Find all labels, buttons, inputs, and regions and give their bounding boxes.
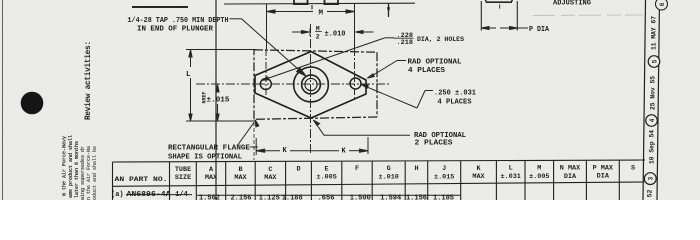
phantom rectangle (optional rectangular flange) [254,50,377,120]
rev circle 3 [644,173,656,185]
hexagonal flange outline [255,52,366,119]
leader: rad optional 2 places [313,120,410,135]
right hole extension line [354,4,356,49]
rev circle 6 [656,0,668,10]
scan edge line at far left [2,0,4,200]
centerline tick of top view [311,5,313,10]
left bolt hole [260,79,271,90]
right hole centerline [354,49,356,101]
punch hole [21,92,44,115]
table headers [115,164,636,184]
left hole extension line [266,4,268,49]
dimension K left and K right [254,122,368,160]
horizontal centerline [196,83,390,85]
note: rad optional 2 places [414,132,466,147]
rev circle 4 [646,115,658,127]
note: rectangular flange [168,145,250,162]
dimension P DIA [481,26,549,34]
small down arrow at top [387,4,390,18]
centerlines [196,24,390,153]
revision strip entries [644,0,667,197]
adjusting screw partial view with P DIA [481,0,517,31]
ghost line upper right [533,14,643,17]
leader: rad optional 4 places [367,61,406,79]
boss tab left [293,0,295,4]
leader: tap note to boss [230,19,307,76]
top partial view of valve body (cut off at top) [224,0,415,10]
note: .250 tolerance [434,90,476,107]
note: tap callout [128,17,229,34]
right bolt hole [350,78,361,89]
dimension M [267,4,355,49]
center boss circles [260,67,361,102]
note: hole diameter callout [394,32,465,46]
stray heavy line fragment top-left [132,6,188,8]
dimension L [186,50,256,122]
table data row (superseded, struck out) [111,191,454,202]
strike-out lines on data row [126,194,460,197]
leader: .228 dia to left hole [262,38,395,81]
vertical centerline [310,24,312,153]
data table grid [113,160,646,200]
left margin border line [215,0,217,200]
note: rad optional 4 places [408,59,462,76]
M dimension line with arrows [267,11,313,13]
dimension N REF ±.015 [202,85,230,121]
photocopy grain [0,0,1,1]
boss tab right [324,0,326,4]
body bottom edge line [224,2,415,5]
leader: .250 ±.031 [362,85,434,108]
leader: rectangular flange note [237,120,259,147]
revision strip band lines [643,0,660,200]
left hole centerline [265,49,267,101]
dimension M/2 ±.010 [292,26,374,41]
rev circle 5 [648,56,660,68]
